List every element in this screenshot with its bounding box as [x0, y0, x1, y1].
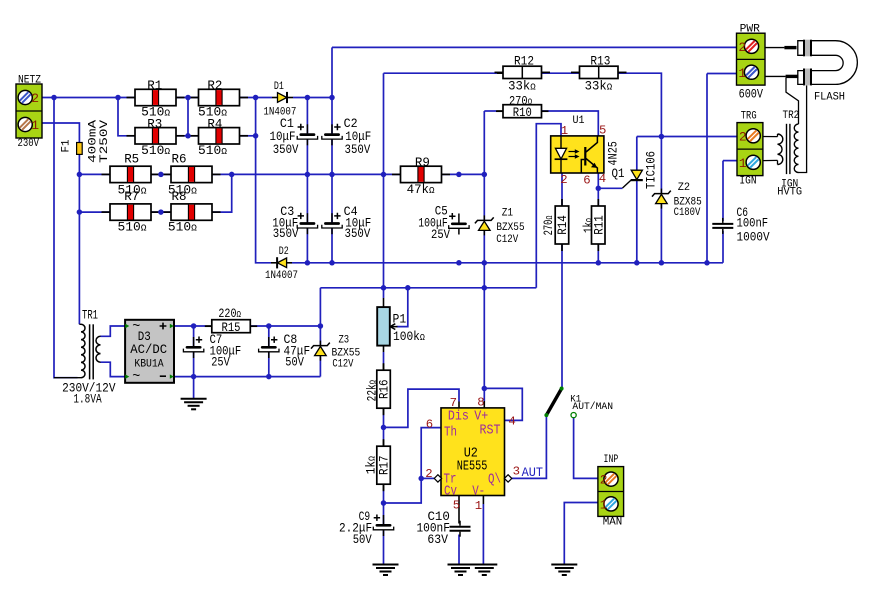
- svg-text:R7: R7: [124, 189, 139, 204]
- svg-text:R1: R1: [147, 78, 162, 93]
- svg-text:2: 2: [739, 129, 747, 144]
- svg-text:22kΩ: 22kΩ: [365, 380, 380, 402]
- svg-text:5: 5: [599, 124, 606, 138]
- svg-text:1: 1: [600, 498, 608, 513]
- svg-text:25V: 25V: [431, 227, 450, 242]
- svg-text:R14: R14: [555, 215, 570, 235]
- svg-text:AC/DC: AC/DC: [130, 342, 167, 357]
- svg-text:KBU1A: KBU1A: [134, 359, 164, 371]
- svg-text:BZX55: BZX55: [496, 222, 524, 234]
- svg-text:R3: R3: [147, 116, 162, 131]
- svg-text:C12V: C12V: [496, 234, 519, 246]
- svg-text:R15: R15: [222, 320, 241, 335]
- svg-text:350V: 350V: [273, 226, 299, 241]
- svg-text:TR2: TR2: [783, 110, 800, 122]
- svg-text:1: 1: [739, 156, 747, 171]
- svg-text:R9: R9: [415, 155, 430, 170]
- svg-text:IGN: IGN: [739, 176, 756, 188]
- svg-text:P1: P1: [393, 312, 407, 327]
- svg-text:NE555: NE555: [457, 460, 488, 475]
- svg-text:1kΩ: 1kΩ: [364, 456, 379, 474]
- svg-text:V+: V+: [474, 410, 488, 425]
- svg-text:5: 5: [453, 499, 460, 513]
- svg-text:1: 1: [475, 499, 482, 513]
- svg-text:Th: Th: [444, 425, 457, 440]
- svg-text:270Ω: 270Ω: [541, 215, 556, 235]
- svg-text:PWR: PWR: [740, 24, 761, 36]
- svg-text:Dis: Dis: [448, 410, 469, 425]
- svg-text:INP: INP: [604, 454, 619, 466]
- svg-text:Cv: Cv: [444, 484, 457, 499]
- svg-text:47kΩ: 47kΩ: [407, 182, 435, 197]
- svg-text:510Ω: 510Ω: [141, 143, 170, 158]
- svg-text:25V: 25V: [211, 355, 230, 370]
- svg-text:F1: F1: [61, 140, 73, 153]
- svg-text:63V: 63V: [427, 532, 448, 547]
- svg-text:510Ω: 510Ω: [118, 220, 147, 235]
- svg-text:TR1: TR1: [82, 307, 98, 322]
- svg-text:100kΩ: 100kΩ: [393, 329, 425, 344]
- svg-text:R2: R2: [207, 78, 222, 93]
- svg-text:2: 2: [738, 40, 746, 55]
- svg-text:4: 4: [508, 415, 515, 429]
- svg-text:3: 3: [513, 465, 520, 479]
- svg-text:C180V: C180V: [674, 207, 701, 219]
- svg-text:1kΩ: 1kΩ: [581, 218, 596, 233]
- svg-text:Z2: Z2: [678, 182, 690, 194]
- svg-text:4: 4: [599, 172, 606, 186]
- svg-text:R12: R12: [514, 54, 534, 69]
- svg-text:Q1: Q1: [612, 166, 625, 181]
- svg-text:1000V: 1000V: [737, 230, 770, 245]
- svg-text:8: 8: [477, 396, 484, 410]
- svg-text:1.8VA: 1.8VA: [73, 392, 102, 407]
- svg-text:NETZ: NETZ: [18, 75, 41, 87]
- svg-text:Z3: Z3: [338, 334, 349, 346]
- svg-text:R17: R17: [377, 455, 392, 475]
- svg-text:2: 2: [31, 91, 39, 106]
- svg-text:TIC106: TIC106: [643, 151, 658, 189]
- svg-text:400mA: 400mA: [87, 119, 99, 163]
- svg-text:600V: 600V: [739, 87, 764, 102]
- svg-text:33kΩ: 33kΩ: [585, 78, 613, 93]
- svg-text:Z1: Z1: [502, 208, 513, 220]
- svg-text:510Ω: 510Ω: [198, 143, 227, 158]
- svg-text:R5: R5: [124, 152, 139, 167]
- svg-text:Q\: Q\: [488, 473, 501, 488]
- svg-text:AUT/MAN: AUT/MAN: [572, 401, 613, 412]
- svg-text:U1: U1: [573, 115, 585, 127]
- svg-text:350V: 350V: [345, 142, 371, 157]
- svg-text:D1: D1: [274, 81, 284, 93]
- svg-text:1: 1: [31, 118, 39, 133]
- svg-text:V-: V-: [472, 484, 485, 499]
- svg-text:2: 2: [425, 467, 432, 481]
- svg-text:D2: D2: [279, 246, 289, 258]
- svg-text:R6: R6: [172, 152, 187, 167]
- svg-text:R13: R13: [590, 54, 610, 69]
- svg-text:R4: R4: [207, 116, 222, 131]
- svg-text:~: ~: [132, 370, 140, 385]
- svg-text:R8: R8: [172, 189, 187, 204]
- svg-text:4N25: 4N25: [606, 141, 621, 165]
- svg-text:100nF: 100nF: [737, 215, 769, 230]
- svg-text:MAN: MAN: [603, 517, 623, 529]
- svg-text:350V: 350V: [273, 142, 299, 157]
- svg-text:1: 1: [561, 124, 568, 138]
- svg-text:T250V: T250V: [99, 119, 111, 163]
- svg-text:RST: RST: [480, 424, 501, 439]
- svg-text:TRG: TRG: [741, 111, 757, 123]
- svg-text:2: 2: [600, 473, 608, 488]
- svg-text:350V: 350V: [345, 226, 371, 241]
- svg-text:1: 1: [738, 66, 746, 81]
- svg-text:7: 7: [450, 396, 457, 410]
- svg-text:1N4007: 1N4007: [265, 270, 298, 282]
- svg-text:33kΩ: 33kΩ: [508, 78, 536, 93]
- svg-text:C12V: C12V: [332, 359, 354, 371]
- svg-text:FLASH: FLASH: [814, 92, 845, 104]
- svg-text:510Ω: 510Ω: [168, 220, 197, 235]
- svg-text:2: 2: [560, 173, 567, 187]
- svg-text:HVTG: HVTG: [777, 186, 802, 198]
- svg-text:AUT: AUT: [522, 465, 544, 480]
- svg-text:230V: 230V: [18, 138, 40, 150]
- svg-text:50V: 50V: [285, 355, 304, 370]
- svg-text:6: 6: [583, 174, 590, 188]
- svg-text:220Ω: 220Ω: [218, 306, 241, 321]
- svg-text:6: 6: [426, 417, 433, 431]
- svg-text:50V: 50V: [353, 532, 372, 547]
- svg-text:~: ~: [132, 320, 140, 335]
- svg-text:270Ω: 270Ω: [509, 93, 533, 108]
